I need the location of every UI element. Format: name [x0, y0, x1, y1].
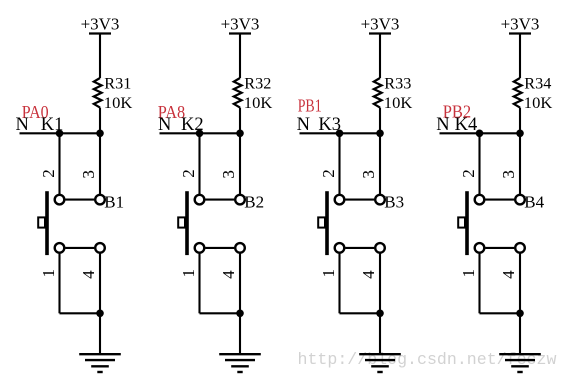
wire [239, 133, 241, 194]
wire [478, 133, 480, 194]
junction [236, 310, 244, 318]
svg-text:B2: B2 [244, 193, 264, 212]
wire net PB2 [440, 132, 521, 134]
pin circle 4 [95, 243, 105, 253]
svg-text:R32: R32 [244, 75, 271, 92]
junction [376, 310, 384, 318]
junction [56, 130, 64, 138]
svg-text:2: 2 [459, 169, 478, 178]
ground [499, 354, 541, 372]
wire [58, 133, 60, 194]
wire [338, 133, 340, 194]
svg-text:B3: B3 [384, 193, 404, 212]
wire top contact [345, 199, 374, 201]
wire [379, 34, 381, 79]
wire top contact [485, 199, 514, 201]
svg-text:K4: K4 [455, 115, 478, 135]
svg-text:1: 1 [459, 269, 478, 278]
junction [236, 130, 244, 138]
wire net PB1 [300, 132, 381, 134]
push button B1 cap [38, 217, 45, 227]
junction [516, 310, 524, 318]
push button B1 actuator bar [45, 191, 49, 255]
wire top contact [65, 199, 94, 201]
pin circle 1 [335, 243, 345, 253]
wire [99, 313, 101, 354]
pin circle 2 [195, 195, 205, 205]
power +3V3 (above R34) [501, 15, 540, 34]
wire [519, 133, 521, 194]
wire [99, 253, 101, 314]
pin circle 2 [475, 195, 485, 205]
pin circle 3 [375, 195, 385, 205]
wire [200, 312, 241, 314]
pin circle 4 [515, 243, 525, 253]
wire bottom contact [485, 247, 514, 249]
power +3V3 (above R32) [221, 15, 260, 34]
svg-text:2: 2 [319, 169, 338, 178]
svg-text:1: 1 [179, 269, 198, 278]
wire top contact [205, 199, 234, 201]
push button B4 cap [458, 217, 465, 227]
pin circle 2 [335, 195, 345, 205]
pin circle 4 [375, 243, 385, 253]
svg-text:4: 4 [219, 270, 238, 279]
svg-text:B1: B1 [104, 193, 124, 212]
svg-text:4: 4 [79, 270, 98, 279]
wire [99, 34, 101, 79]
wire net PA8 [160, 132, 241, 134]
ground [219, 354, 261, 372]
push button B2 actuator bar [185, 191, 189, 255]
junction [336, 130, 344, 138]
svg-text:10K: 10K [524, 95, 553, 112]
svg-text:10K: 10K [104, 95, 133, 112]
resistor R33 [374, 78, 382, 108]
ground [359, 354, 401, 372]
wire [519, 313, 521, 354]
pin circle 1 [475, 243, 485, 253]
net label N K2 [158, 115, 204, 135]
svg-text:1: 1 [39, 269, 58, 278]
wire [239, 34, 241, 79]
wire [99, 133, 101, 194]
net label N K4 [436, 115, 477, 135]
net label N K3 [297, 115, 341, 135]
wire [379, 108, 381, 134]
wire [239, 108, 241, 134]
svg-text:R34: R34 [524, 75, 551, 92]
wire [338, 253, 340, 314]
svg-text:+3V3: +3V3 [221, 15, 260, 34]
svg-text:4: 4 [499, 270, 518, 279]
junction [96, 130, 104, 138]
wire [340, 312, 381, 314]
pin circle 3 [95, 195, 105, 205]
svg-text:N: N [158, 115, 171, 135]
svg-text:B4: B4 [524, 193, 544, 212]
svg-text:2: 2 [39, 169, 58, 178]
ground [79, 354, 121, 372]
wire [519, 34, 521, 79]
wire [379, 133, 381, 194]
wire net PA0 [20, 132, 101, 134]
push button B4 actuator bar [465, 191, 469, 255]
junction [96, 310, 104, 318]
wire [198, 133, 200, 194]
push button B2 cap [178, 217, 185, 227]
svg-text:3: 3 [359, 170, 378, 179]
svg-text:R31: R31 [104, 75, 131, 92]
push button B3 cap [318, 217, 325, 227]
power +3V3 (above R31) [81, 15, 120, 34]
power +3V3 (above R33) [361, 15, 400, 34]
wire [198, 253, 200, 314]
net label N K1 [16, 115, 64, 135]
svg-text:1: 1 [319, 269, 338, 278]
wire [239, 253, 241, 314]
wire bottom contact [205, 247, 234, 249]
svg-text:N: N [436, 115, 449, 135]
pin circle 4 [235, 243, 245, 253]
wire [478, 253, 480, 314]
svg-text:+3V3: +3V3 [81, 15, 120, 34]
svg-text:N: N [297, 115, 310, 135]
junction [376, 130, 384, 138]
wire [519, 108, 521, 134]
junction [516, 130, 524, 138]
wire [239, 313, 241, 354]
resistor R31 [94, 78, 102, 108]
svg-text:4: 4 [359, 270, 378, 279]
resistor R34 [514, 78, 522, 108]
wire [379, 253, 381, 314]
svg-text:N: N [16, 115, 29, 135]
wire bottom contact [65, 247, 94, 249]
svg-text:10K: 10K [384, 95, 413, 112]
pin circle 1 [55, 243, 65, 253]
pin circle 3 [515, 195, 525, 205]
svg-text:+3V3: +3V3 [501, 15, 540, 34]
wire [379, 313, 381, 354]
svg-text:3: 3 [79, 170, 98, 179]
svg-text:+3V3: +3V3 [361, 15, 400, 34]
push button B3 actuator bar [325, 191, 329, 255]
junction [476, 130, 484, 138]
wire [519, 253, 521, 314]
svg-text:10K: 10K [244, 95, 273, 112]
wire [58, 253, 60, 314]
svg-text:3: 3 [499, 170, 518, 179]
wire [480, 312, 521, 314]
resistor R32 [234, 78, 242, 108]
svg-text:3: 3 [219, 170, 238, 179]
wire [60, 312, 101, 314]
svg-text:R33: R33 [384, 75, 411, 92]
wire bottom contact [345, 247, 374, 249]
pin circle 3 [235, 195, 245, 205]
pin circle 2 [55, 195, 65, 205]
junction [196, 130, 204, 138]
pin circle 1 [195, 243, 205, 253]
wire [99, 108, 101, 134]
svg-text:PB1: PB1 [298, 95, 322, 115]
svg-text:2: 2 [179, 169, 198, 178]
